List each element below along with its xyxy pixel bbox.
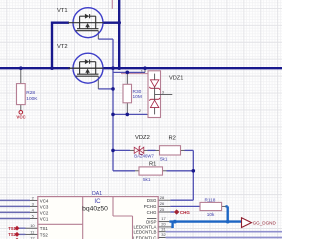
svg-text:DISP: DISP [146, 219, 156, 224]
svg-text:R1: R1 [149, 161, 156, 167]
svg-text:10k: 10k [207, 212, 215, 217]
svg-text:CHG: CHG [180, 210, 190, 215]
svg-text:TS3: TS3 [8, 238, 16, 239]
svg-text:DA1: DA1 [92, 191, 102, 197]
svg-text:TS2: TS2 [40, 232, 49, 237]
svg-text:VC2: VC2 [40, 210, 49, 215]
svg-text:LEDCNTLB: LEDCNTLB [133, 230, 156, 235]
svg-text:28: 28 [160, 195, 165, 200]
svg-text:100K: 100K [26, 96, 38, 102]
svg-text:VC4: VC4 [40, 198, 49, 203]
svg-text:GG_DGND: GG_DGND [253, 220, 277, 225]
svg-text:bq40z50: bq40z50 [82, 206, 108, 213]
svg-text:VT2: VT2 [57, 44, 68, 50]
svg-text:DSG: DSG [147, 198, 157, 203]
svg-text:TS1: TS1 [40, 226, 49, 231]
svg-text:26: 26 [160, 201, 165, 206]
svg-text:17: 17 [161, 216, 166, 221]
svg-text:VDZ1: VDZ1 [169, 75, 183, 81]
svg-text:VC3: VC3 [40, 204, 49, 209]
svg-text:VCC: VCC [16, 114, 26, 119]
svg-text:BAZ46W7: BAZ46W7 [134, 153, 154, 158]
svg-text:5k1: 5k1 [143, 177, 151, 182]
svg-text:10M: 10M [133, 94, 142, 100]
svg-text:31: 31 [161, 226, 166, 231]
svg-text:25: 25 [160, 207, 165, 212]
svg-text:5k1: 5k1 [160, 156, 168, 161]
svg-text:VDZ2: VDZ2 [135, 135, 150, 141]
svg-text:LEDCNTLC: LEDCNTLC [133, 235, 156, 239]
svg-text:VT1: VT1 [57, 8, 68, 14]
svg-text:TS3: TS3 [40, 239, 49, 240]
svg-text:R2: R2 [169, 136, 176, 142]
svg-text:R30: R30 [133, 89, 142, 95]
svg-text:R28: R28 [26, 90, 35, 96]
svg-text:PCHG: PCHG [144, 204, 157, 209]
svg-text:CHG: CHG [147, 210, 157, 215]
svg-text:32: 32 [161, 232, 166, 237]
svg-text:IC: IC [94, 198, 101, 205]
svg-text:VC1: VC1 [40, 216, 49, 221]
svg-text:12: 12 [30, 236, 35, 239]
svg-text:R118: R118 [205, 197, 216, 202]
svg-text:10: 10 [30, 223, 35, 228]
